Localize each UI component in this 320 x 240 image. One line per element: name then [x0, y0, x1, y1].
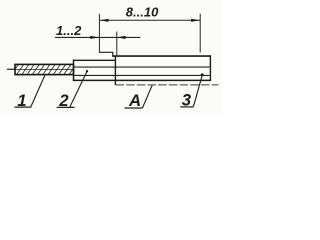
dimension 1...2 line with outside arrows	[55, 36, 140, 39]
tube 3 right edge	[209, 55, 211, 81]
extension line V1	[98, 14, 100, 53]
label 1	[15, 75, 46, 110]
label 3	[180, 73, 203, 109]
label A	[125, 85, 153, 110]
label 2	[57, 70, 89, 110]
svg-text:8...10: 8...10	[126, 5, 159, 20]
svg-text:1...2: 1...2	[56, 23, 82, 38]
wire upper edge inside tubes	[74, 66, 210, 68]
conductor 1 (hatched bar)	[15, 64, 74, 74]
counter arrow of 1...2 at V2	[117, 36, 126, 39]
extension line V2	[116, 32, 118, 57]
insulation 2 top edge	[73, 59, 116, 61]
svg-text:A: A	[128, 91, 141, 110]
wire stub	[7, 68, 16, 70]
dimension line 8...10	[99, 19, 200, 22]
wire lower edge inside tubes	[74, 74, 210, 76]
extension line right	[199, 14, 201, 53]
insulation 2 left edge	[73, 60, 75, 81]
step outline above tube end	[99, 52, 112, 56]
marking line A (dashed)	[115, 84, 218, 86]
bottom edge of parts 2 and 3	[73, 79, 211, 81]
tube 3 top edge	[112, 55, 211, 57]
tube 3 left edge	[114, 55, 116, 85]
